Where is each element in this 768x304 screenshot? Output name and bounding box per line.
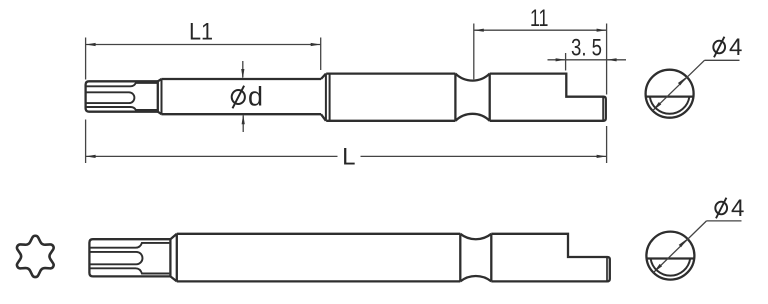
L1 dimension [85, 38, 87, 80]
bottom tip flute middle U [89, 252, 142, 264]
bottom body right section with stepped end [491, 234, 610, 282]
bottom tip-body shoulder [170, 234, 176, 282]
chord line top circle [646, 95, 694, 97]
bottom neck groove arcs [460, 234, 491, 239]
neck groove arcs [455, 74, 489, 81]
3.5 dimension [565, 53, 567, 71]
svg-text:L: L [342, 144, 355, 171]
L dimension [85, 120, 87, 164]
torx bit tip outline (bottom view) [89, 239, 170, 276]
tip flute middle U [86, 92, 135, 103]
phi-d dimension arrows [242, 61, 244, 78]
body left section [326, 74, 455, 121]
neck groove walls [455, 74, 489, 121]
svg-text:3. 5: 3. 5 [571, 35, 602, 62]
tip flute top line [86, 83, 157, 86]
torx star end view [17, 236, 54, 277]
11 dimension [473, 24, 475, 80]
leader top phi4 [705, 59, 740, 61]
svg-text:4: 4 [729, 34, 742, 61]
svg-text:11: 11 [530, 5, 549, 32]
section circle top [646, 70, 694, 118]
inner arc top circle [650, 97, 690, 114]
body right section with stepped end [490, 74, 606, 121]
shaft-body cone [321, 74, 326, 121]
bottom tip flute top line [89, 243, 169, 248]
leader bottom phi4 [707, 220, 742, 222]
svg-text:L1: L1 [189, 19, 213, 46]
phi4 label top [713, 41, 725, 54]
diameter line bottom circle [653, 221, 706, 273]
tip-shaft shoulder [158, 79, 162, 114]
tip flute bottom line [86, 107, 157, 110]
diameter line top circle [653, 60, 705, 110]
chord line bottom circle [647, 257, 695, 259]
shaft [161, 79, 321, 114]
phi4 label bottom [715, 202, 727, 215]
phi-d label [232, 90, 245, 104]
torx bit tip outline (top view) [86, 81, 158, 111]
bottom body left section [177, 234, 461, 282]
end chamfer line [602, 97, 604, 120]
bottom tip flute bottom line [89, 268, 169, 273]
svg-text:4: 4 [731, 195, 744, 222]
bottom neck groove walls [460, 234, 491, 282]
svg-text:d: d [248, 82, 263, 112]
section circle bottom [646, 232, 694, 280]
inner arc bottom circle [651, 259, 691, 276]
bottom end chamfer line [606, 258, 608, 281]
